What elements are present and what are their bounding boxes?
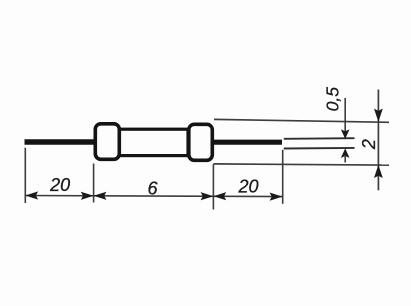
extension line: lead bottom edge (for dia 0,5) [284,147,355,150]
arrowhead up (tip at body bottom line) [374,165,383,178]
extension line: body right edge [212,164,214,210]
extension line: right lead end [282,150,284,204]
dimension line: dia 0,5 lower stub [344,155,346,163]
arrowhead left (tip at left lead end) [25,191,38,199]
arrowhead left of 6 (tip at body left edge) [94,192,107,200]
dimension line: bottom chain 20 / 6 / 20 [25,196,282,197]
wire: right lead of resistor [211,140,282,145]
resistor left end cap [95,124,119,160]
extension line: body top edge (for dia 2) [214,119,389,122]
dimension line: dia 2 vertical [377,90,379,191]
svg-text:6: 6 [147,178,158,198]
arrowhead left of 20-right (tip at body right edge) [213,192,226,200]
extension line: body left edge [93,164,95,203]
resistor body tube [119,129,188,155]
arrowhead right end (tip at right lead end) [270,193,283,201]
arrowhead down (tip at body top line) [374,109,383,122]
arrowhead right of 20-left (tip at body left edge) [81,192,94,200]
arrowhead right of 6 (tip at body right edge) [201,192,214,200]
dimension line: dia 0,5 upper segment [344,98,346,138]
svg-text:20: 20 [49,175,70,195]
svg-text:0,5: 0,5 [322,87,342,112]
extension line: left lead end [24,148,26,203]
svg-text:20: 20 [237,176,258,196]
extension line: body bottom edge (for dia 2) [214,164,390,165]
svg-text:2: 2 [359,139,379,150]
wire: left lead of resistor [25,139,97,145]
resistor right end cap [189,124,213,160]
arrowhead down (tip at lead top line) [341,129,350,139]
extension line: lead top edge (for dia 0,5) [284,137,355,140]
arrowhead up (tip at lead bottom line) [341,148,350,158]
